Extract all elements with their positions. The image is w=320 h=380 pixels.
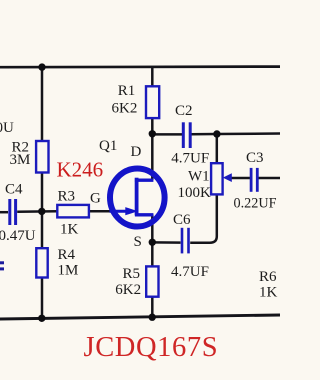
- svg-text:JCDQ167S: JCDQ167S: [84, 332, 219, 363]
- transistor Q1 gate line: [110, 210, 127, 213]
- svg-text:R6: R6: [259, 269, 277, 285]
- wire R4 to bottom rail: [41, 277, 44, 319]
- svg-text:6K2: 6K2: [112, 101, 138, 117]
- svg-text:C6: C6: [173, 212, 191, 228]
- capacitor C6 plates: [181, 228, 184, 254]
- svg-text:3M: 3M: [10, 152, 31, 168]
- wire drain lead Q1: [151, 134, 154, 180]
- wire S node to C6: [152, 241, 180, 244]
- partial letter F (clipped label): [0, 261, 4, 264]
- node top-left junction: [38, 63, 45, 70]
- transistor Q1 source link: [135, 213, 154, 216]
- wire drain node to C2: [152, 133, 182, 136]
- transistor Q1 circle: [110, 169, 165, 227]
- svg-text:Q1: Q1: [99, 138, 117, 154]
- svg-text:G: G: [90, 190, 101, 206]
- wire W1 node down to W1 top: [216, 134, 219, 164]
- wire R5 to bottom rail: [151, 297, 154, 318]
- svg-text:1M: 1M: [58, 262, 79, 278]
- wire C3 to right edge: [258, 177, 280, 180]
- resistor R4: [36, 248, 47, 277]
- capacitor C4 plates: [8, 199, 11, 225]
- node A (C4/R3/R2/R4): [38, 208, 45, 215]
- wire W1 wiper to C3: [231, 177, 250, 180]
- svg-text:1K: 1K: [259, 284, 278, 300]
- wire top rail: [0, 65, 280, 68]
- wire C4 left lead: [0, 211, 8, 214]
- svg-text:K246: K246: [57, 157, 104, 181]
- svg-text:R5: R5: [123, 266, 141, 282]
- transistor Q1 drain link: [135, 178, 154, 181]
- capacitor C3 plates: [250, 168, 253, 192]
- svg-text:6K2: 6K2: [115, 282, 141, 298]
- resistor R1: [146, 86, 159, 118]
- svg-text:W1: W1: [188, 168, 210, 184]
- svg-text:4.7UF: 4.7UF: [171, 150, 209, 166]
- potentiometer W1 body: [211, 163, 223, 194]
- wire source lead Q1: [151, 215, 154, 243]
- potentiometer W1 wiper arrow: [223, 173, 232, 182]
- capacitor C2 plates: [182, 122, 185, 148]
- resistor R2: [36, 141, 48, 173]
- wire bottom rail: [0, 315, 280, 319]
- svg-text:100K: 100K: [178, 185, 212, 201]
- wire R2 to node A: [41, 172, 44, 249]
- resistor R3: [57, 205, 89, 218]
- wire W1 bottom bend to C6: [190, 194, 217, 243]
- node drain junction: [149, 130, 156, 137]
- svg-text:4.7UF: 4.7UF: [171, 264, 209, 280]
- node S junction: [149, 239, 156, 246]
- svg-text:S: S: [134, 234, 142, 250]
- wire W1 node to right edge: [217, 132, 280, 135]
- svg-text:R4: R4: [58, 247, 76, 263]
- svg-text:R3: R3: [58, 189, 76, 205]
- svg-text:R1: R1: [118, 83, 136, 99]
- svg-text:C4: C4: [5, 181, 23, 197]
- transistor Q1 gate arrow: [125, 207, 138, 215]
- transistor Q1 channel bar: [135, 178, 139, 216]
- svg-text:D: D: [131, 144, 142, 160]
- svg-text:0.22UF: 0.22UF: [234, 196, 277, 212]
- node bottom-mid junction: [149, 314, 156, 321]
- wire C2 to W1 node: [191, 133, 217, 136]
- svg-text:C3: C3: [246, 150, 264, 166]
- wire left column upper (to R2): [41, 67, 44, 142]
- node C2/W1 junction: [213, 130, 220, 137]
- wire R1 to drain node: [151, 118, 154, 134]
- resistor R5: [146, 266, 158, 296]
- wire S node to R5: [151, 243, 154, 267]
- svg-text:0.47U: 0.47U: [0, 228, 36, 244]
- wire C4 right lead to node A: [17, 210, 57, 213]
- svg-text:1K: 1K: [60, 222, 79, 238]
- svg-text:0U: 0U: [0, 120, 14, 136]
- svg-text:C2: C2: [175, 103, 193, 119]
- node bottom-left junction: [38, 315, 45, 322]
- wire R3 to gate: [89, 210, 113, 213]
- wire top rail to R1: [151, 67, 154, 87]
